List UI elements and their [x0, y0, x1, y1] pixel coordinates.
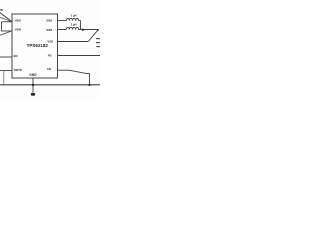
wire EN — [0, 56, 12, 58]
svg-text:GND: GND — [29, 73, 37, 77]
pin numbers (faint) — [13, 20, 58, 71]
wire GND pin — [32, 78, 34, 85]
wire SS/TR to ground — [3, 71, 5, 85]
node GND rail — [32, 84, 35, 87]
svg-text:12: 12 — [55, 41, 57, 43]
wire VOS diagonal — [88, 30, 98, 42]
capacitor C2 — [96, 38, 100, 40]
ground — [32, 85, 34, 93]
svg-text:15: 15 — [55, 20, 57, 22]
wire VOUT — [79, 29, 99, 31]
inductor L2 — [66, 27, 78, 29]
svg-text:1 µH: 1 µH — [71, 13, 77, 17]
svg-text:EN: EN — [14, 54, 18, 58]
wire — [79, 29, 87, 31]
node VOUT join — [82, 29, 84, 31]
wire SW1 — [58, 20, 67, 22]
wire SW2 — [58, 29, 67, 31]
svg-text:SW2: SW2 — [46, 28, 53, 32]
svg-text:SW1: SW1 — [46, 18, 53, 22]
wire VIN2 diagonal — [0, 31, 12, 35]
node junction dots — [32, 29, 99, 87]
svg-text:VIN: VIN — [0, 8, 3, 12]
ground bar — [31, 93, 36, 96]
wire — [79, 20, 81, 22]
wire VIN diagonal lower — [0, 17, 12, 22]
svg-text:2: 2 — [13, 20, 14, 22]
op-amp U1 — [12, 14, 58, 78]
svg-text:VOS: VOS — [47, 40, 53, 44]
wire VIN diagonal — [0, 13, 12, 22]
svg-text:SS/TR: SS/TR — [14, 68, 22, 72]
svg-text:14: 14 — [55, 30, 57, 32]
svg-text:PG: PG — [48, 54, 52, 58]
svg-text:VIN1: VIN1 — [15, 18, 22, 22]
inductor L1 — [66, 18, 78, 20]
svg-text:VIN2: VIN2 — [15, 28, 22, 32]
wire VOS — [58, 41, 89, 43]
wire rail — [0, 84, 100, 86]
wire PG — [58, 55, 101, 57]
svg-text:10: 10 — [55, 56, 57, 58]
wire SS/TR — [0, 70, 12, 72]
wire phase join — [80, 21, 82, 30]
wire VIN1 — [2, 21, 13, 23]
wire FB — [58, 70, 90, 85]
svg-text:FB: FB — [47, 67, 51, 71]
wire VIN2 — [1, 30, 12, 32]
svg-text:1: 1 — [13, 56, 14, 58]
svg-text:TPS62182: TPS62182 — [27, 43, 49, 48]
svg-text:1 µH: 1 µH — [71, 22, 77, 26]
wire VIN link vertical — [1, 22, 3, 31]
svg-text:3: 3 — [13, 30, 14, 32]
svg-text:11: 11 — [55, 69, 57, 71]
